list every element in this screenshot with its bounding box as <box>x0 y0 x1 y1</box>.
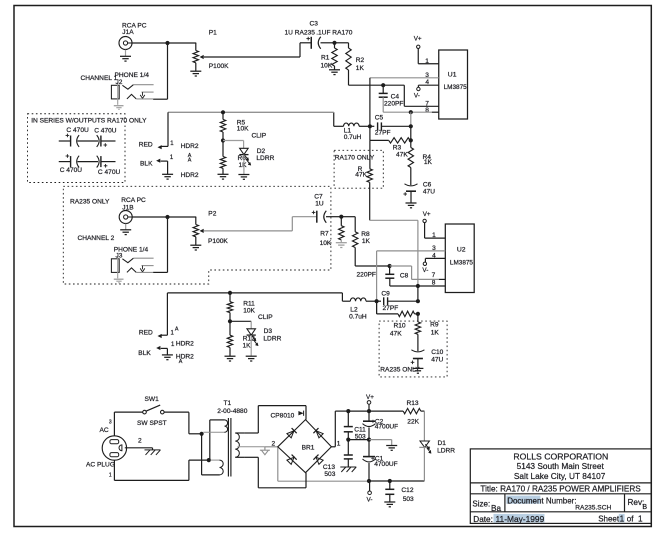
svg-text:BLK: BLK <box>140 161 153 168</box>
phone jack J2 <box>111 85 119 99</box>
svg-text:CP8010: CP8010 <box>271 413 295 420</box>
svg-text:AC PLUG: AC PLUG <box>86 461 115 468</box>
resistor R8 <box>353 232 358 248</box>
svg-text:RA235 ONLY: RA235 ONLY <box>380 367 420 374</box>
wire plug bottom to T1 <box>113 460 115 480</box>
svg-text:7: 7 <box>432 272 436 279</box>
wire node A down to J2 <box>167 43 169 99</box>
svg-text:P2: P2 <box>208 210 216 217</box>
chassis ground AC <box>145 449 161 451</box>
phone jack J3 <box>111 259 119 273</box>
svg-text:47U: 47U <box>423 188 435 195</box>
svg-text:1: 1 <box>432 232 436 239</box>
op-amp U1 <box>439 50 468 119</box>
header rail wire ch1 <box>168 111 334 113</box>
capacitor C8 <box>389 266 391 274</box>
svg-text:LM3875: LM3875 <box>450 260 474 267</box>
LED D3 <box>230 320 251 322</box>
svg-text:P100K: P100K <box>208 238 228 245</box>
svg-text:1K: 1K <box>362 238 371 245</box>
ground under R6 <box>222 168 224 174</box>
svg-text:J1A: J1A <box>122 29 134 36</box>
T1 center tap ground <box>261 450 268 455</box>
ground under BLK ch2 <box>162 354 173 356</box>
svg-text:AC: AC <box>100 427 109 434</box>
capacitor C9 <box>377 300 381 302</box>
svg-text:D3: D3 <box>264 328 273 335</box>
svg-text:1K: 1K <box>424 159 433 166</box>
output node junction ch2 <box>416 284 420 288</box>
svg-text:5143 South Main Street: 5143 South Main Street <box>517 461 605 471</box>
wire R2 to pin7 path <box>348 70 350 85</box>
BLK terminal ch1 <box>156 159 160 163</box>
svg-text:RED: RED <box>139 141 153 148</box>
ground under R1 <box>334 66 336 70</box>
op-amp U2 <box>445 224 474 293</box>
svg-text:1U: 1U <box>315 200 324 207</box>
svg-text:1U RA235: 1U RA235 <box>285 30 316 37</box>
wire bridge minus to V- rail <box>277 447 279 481</box>
svg-text:CHANNEL 1: CHANNEL 1 <box>81 75 118 82</box>
node A junction <box>165 41 169 45</box>
node E junction <box>339 215 343 219</box>
potentiometer P2 <box>195 217 197 225</box>
svg-text:U1: U1 <box>448 71 457 78</box>
svg-text:27PF: 27PF <box>383 305 399 312</box>
svg-text:1K: 1K <box>356 65 365 72</box>
svg-text:503: 503 <box>403 496 414 503</box>
output node junction <box>409 110 413 114</box>
svg-text:P100K: P100K <box>209 63 229 70</box>
LED D1 <box>420 441 429 447</box>
svg-text:V+: V+ <box>414 36 422 43</box>
wire C4 bottom to output <box>382 97 384 112</box>
svg-text:J3: J3 <box>116 253 123 260</box>
svg-text:1: 1 <box>620 514 625 523</box>
svg-text:1: 1 <box>337 441 341 448</box>
node L1-C5 junctions <box>368 124 372 128</box>
inductor L1 <box>334 125 344 127</box>
svg-text:11-May-1999: 11-May-1999 <box>496 514 545 524</box>
speaker line ch1 <box>410 112 412 126</box>
bridge diode bottom-left <box>287 455 297 465</box>
svg-text:RA170 ONLY: RA170 ONLY <box>335 154 375 161</box>
svg-text:LDRR: LDRR <box>256 155 274 162</box>
P2 wiper arrow <box>200 229 204 233</box>
series cap pair row1 <box>59 140 71 142</box>
wire to U1 pin 7 <box>383 84 404 86</box>
svg-text:LDRR: LDRR <box>263 336 281 343</box>
LED D2 <box>223 140 244 142</box>
svg-text:C10: C10 <box>431 349 443 356</box>
resistor R11 <box>229 293 231 302</box>
RCA jack J1A <box>119 37 132 50</box>
T1 primary winding 1 <box>201 434 203 475</box>
sheet highlight <box>619 514 625 522</box>
wire secondary top to bridge <box>245 432 258 434</box>
node C8-top junction <box>388 264 392 268</box>
node R3-R4 junction <box>409 138 413 142</box>
svg-text:CHANNEL 2: CHANNEL 2 <box>78 235 115 242</box>
node T1 primary B <box>207 458 211 462</box>
ground under P1 <box>195 63 197 71</box>
RED terminal ch2 <box>161 334 167 336</box>
RA235 ONLY dotted box <box>63 186 331 284</box>
wire node B to R2 <box>335 42 349 44</box>
wire C7 to node E <box>326 216 341 218</box>
svg-text:RCA PC: RCA PC <box>121 197 146 204</box>
svg-text:22K: 22K <box>407 418 419 425</box>
svg-text:R13: R13 <box>407 400 419 407</box>
svg-text:47K: 47K <box>390 331 402 338</box>
resistor R9 <box>417 314 419 322</box>
svg-text:P1: P1 <box>209 30 217 37</box>
wire L2 to header rail ch2 <box>341 293 343 301</box>
capacitor C6 <box>410 168 412 186</box>
svg-text:3: 3 <box>425 72 429 79</box>
bridge diode top-left <box>287 428 297 438</box>
svg-text:C12: C12 <box>401 487 413 494</box>
svg-text:.1UF RA170: .1UF RA170 <box>316 30 353 37</box>
svg-text:0.7uH: 0.7uH <box>344 134 362 141</box>
svg-text:B: B <box>642 504 647 511</box>
pin 3 gray wire <box>370 77 439 79</box>
BLK terminal ch2 <box>156 346 160 350</box>
RED terminal ch1 <box>161 145 168 147</box>
pin 3 gray wire U2 <box>377 250 446 252</box>
svg-text:V-: V- <box>367 496 373 503</box>
wire R47K to ch2 output <box>369 182 371 220</box>
svg-text:C7: C7 <box>314 193 323 200</box>
node D junction <box>165 215 169 219</box>
svg-text:C8: C8 <box>400 272 409 279</box>
T1 secondary winding <box>235 433 239 457</box>
capacitor C3 <box>310 37 312 49</box>
svg-text:R10: R10 <box>394 323 406 330</box>
mid rail and earth ground <box>348 439 369 441</box>
svg-text:Date:: Date: <box>473 515 493 524</box>
V+ terminal PSU <box>367 401 371 405</box>
svg-text:A: A <box>175 327 179 333</box>
svg-text:2: 2 <box>138 437 142 444</box>
wire C8 bottom to output ch2 <box>389 278 391 286</box>
CP8010 diode mark <box>298 411 303 416</box>
svg-text:C9: C9 <box>381 290 390 297</box>
svg-text:C 470U: C 470U <box>98 169 121 176</box>
feedback vertical ch1 <box>369 78 371 141</box>
series cap pair row2 <box>59 161 71 163</box>
svg-text:1K: 1K <box>239 162 248 169</box>
svg-text:4700UF: 4700UF <box>374 461 397 468</box>
wire plug pin2 to chassis <box>125 447 153 449</box>
svg-text:V+: V+ <box>366 394 374 401</box>
svg-text:V+: V+ <box>423 211 431 218</box>
svg-text:Ba: Ba <box>491 504 501 513</box>
resistor R10 <box>376 301 378 314</box>
capacitor C5 <box>370 125 374 127</box>
wire R13 to D1 <box>421 410 425 412</box>
P1 wiper arrow <box>200 55 204 59</box>
V+ rail <box>348 410 403 412</box>
svg-text:1K: 1K <box>431 330 440 337</box>
capacitor C4 <box>382 85 384 93</box>
svg-text:Document Number:: Document Number: <box>507 496 576 505</box>
ground under R7 <box>340 240 342 243</box>
svg-text:of: of <box>627 514 634 523</box>
svg-text:IN SERIES W/OUTPUTS RA170 ONLY: IN SERIES W/OUTPUTS RA170 ONLY <box>31 117 147 124</box>
wire J1A to node <box>132 42 168 44</box>
svg-text:1: 1 <box>638 514 643 523</box>
svg-text:2-00-4880: 2-00-4880 <box>217 408 247 415</box>
svg-text:10K: 10K <box>321 63 333 70</box>
wire plug top to SW1 <box>113 412 115 436</box>
wire to U2 pin 7 <box>390 265 412 267</box>
wire SW1 to T1 <box>164 411 189 413</box>
capacitor C1 <box>368 440 370 457</box>
svg-text:47K: 47K <box>355 171 367 178</box>
svg-text:D2: D2 <box>257 148 266 155</box>
svg-text:C3: C3 <box>310 21 319 28</box>
svg-text:C 470U: C 470U <box>66 127 89 134</box>
svg-text:47K: 47K <box>396 151 408 158</box>
ground under D3 <box>250 335 252 356</box>
bridge diode top-right <box>313 428 323 438</box>
capacitor C12 <box>389 481 391 489</box>
svg-text:V-: V- <box>414 93 420 100</box>
node L2-C9 junctions <box>375 299 379 303</box>
resistor R7 <box>340 217 342 226</box>
svg-text:1: 1 <box>109 473 112 479</box>
RA170 ONLY dotted box <box>334 150 383 188</box>
capacitor C10 <box>417 334 419 351</box>
svg-text:HDR2: HDR2 <box>176 341 194 348</box>
svg-text:HDR2: HDR2 <box>181 172 199 179</box>
svg-text:3: 3 <box>109 419 112 425</box>
RCA jack J1B <box>119 211 132 224</box>
svg-text:LM3875: LM3875 <box>444 84 468 91</box>
ground under R12 <box>229 348 231 357</box>
svg-text:RA235 ONLY: RA235 ONLY <box>70 199 110 206</box>
svg-text:J2: J2 <box>116 79 123 86</box>
V- rail <box>369 480 424 482</box>
date highlight <box>494 514 545 523</box>
node R11 top junction <box>228 291 232 295</box>
bridge diode bottom-right <box>313 455 323 465</box>
wire node D to P2 <box>168 216 197 218</box>
speaker line ch2 <box>417 286 419 301</box>
resistor R1 <box>334 43 336 48</box>
svg-text:3: 3 <box>432 245 436 252</box>
chassis ground C13 <box>347 459 349 467</box>
node C11-C13 junction <box>346 438 350 442</box>
svg-text:27PF: 27PF <box>375 129 391 136</box>
svg-text:J1B: J1B <box>122 205 134 212</box>
capacitor C11 <box>347 411 349 426</box>
wire wiper up to C3 <box>299 43 301 57</box>
wire node A to P1 <box>168 42 197 44</box>
ground under C12 <box>389 494 391 502</box>
svg-text:R2: R2 <box>356 57 365 64</box>
svg-text:1K: 1K <box>243 342 252 349</box>
svg-text:ROLLS CORPORATION: ROLLS CORPORATION <box>513 451 608 461</box>
svg-text:T1: T1 <box>224 400 232 407</box>
svg-text:1: 1 <box>425 58 429 65</box>
svg-text:10K: 10K <box>237 126 249 133</box>
svg-text:Sheet: Sheet <box>598 514 620 523</box>
svg-text:SW SPST: SW SPST <box>137 420 167 427</box>
svg-text:BR1: BR1 <box>302 444 315 451</box>
svg-text:R8: R8 <box>361 231 370 238</box>
resistor R6 <box>222 141 224 157</box>
V+ terminal ch2 <box>423 219 426 222</box>
ground under J1A <box>125 50 127 57</box>
wire header vertical ch2 <box>166 293 168 335</box>
ground under C6 <box>410 191 412 203</box>
node T1 primary A <box>200 432 204 436</box>
node R10-R9 junction <box>416 312 420 316</box>
ground under C10 <box>417 359 419 369</box>
wire node D down to J3 <box>167 217 169 272</box>
svg-text:10K: 10K <box>320 240 332 247</box>
document number highlight <box>506 496 540 504</box>
svg-text:U2: U2 <box>457 246 466 253</box>
svg-text:C11: C11 <box>354 426 366 433</box>
svg-text:PHONE 1/4: PHONE 1/4 <box>115 72 150 79</box>
wire D1 to V- rail <box>423 447 425 481</box>
node B junction <box>332 41 336 45</box>
resistor R2 <box>348 43 350 48</box>
svg-text:C13: C13 <box>323 464 335 471</box>
wire node E to R8 <box>341 216 355 218</box>
T1 primary winding 2 <box>220 460 224 475</box>
node C4-top junction <box>381 83 385 87</box>
svg-text:0.7uH: 0.7uH <box>349 313 367 320</box>
svg-text:CLIP: CLIP <box>252 133 267 140</box>
svg-text:R7: R7 <box>320 230 329 237</box>
svg-text:V-: V- <box>422 267 428 274</box>
svg-text:220PF: 220PF <box>384 100 403 107</box>
svg-text:Title: RA170 / RA235 POWER AMP: Title: RA170 / RA235 POWER AMPLIFIERS <box>480 485 641 494</box>
potentiometer P1 <box>195 43 197 51</box>
capacitor C2 <box>368 411 370 421</box>
V+ terminal ch1 <box>417 45 420 48</box>
resistor R13 <box>403 408 421 413</box>
V- terminal PSU <box>369 481 371 491</box>
wire bridge plus rail <box>331 446 335 448</box>
svg-text:R1: R1 <box>321 55 330 62</box>
ground under P2 <box>195 237 197 245</box>
svg-text:4700UF: 4700UF <box>375 424 398 431</box>
svg-text:47U: 47U <box>431 356 443 363</box>
title block frame <box>470 449 651 524</box>
feedback vertical ch2 <box>376 251 378 314</box>
svg-text:CLIP: CLIP <box>258 314 273 321</box>
ground under J1B <box>125 224 127 230</box>
node R5 top junction <box>221 110 225 114</box>
wire L1 to header rail <box>333 112 335 126</box>
svg-text:RED: RED <box>139 329 153 336</box>
svg-text:D1: D1 <box>438 440 447 447</box>
svg-text:220PF: 220PF <box>357 271 376 278</box>
svg-text:A: A <box>179 359 183 365</box>
svg-text:C5: C5 <box>375 114 384 121</box>
RA235 ONLY bottom dotted box <box>379 321 447 377</box>
svg-text:Salt Lake City, UT 84107: Salt Lake City, UT 84107 <box>514 471 606 481</box>
svg-text:RA235.SCH: RA235.SCH <box>575 504 611 511</box>
IN SERIES dotted box <box>28 114 126 183</box>
svg-text:BLK: BLK <box>138 350 151 357</box>
bridge rectifier BR1 <box>278 420 332 473</box>
svg-text:C 470U: C 470U <box>60 167 83 174</box>
svg-text:LDRR: LDRR <box>437 447 455 454</box>
svg-text:R9: R9 <box>430 322 439 329</box>
resistor R 47K RA170 <box>367 169 372 183</box>
resistor R4 <box>410 140 412 147</box>
svg-text:A: A <box>188 158 192 164</box>
inductor L2 <box>342 300 350 302</box>
wire header vertical ch1 <box>167 112 169 146</box>
wire wiper up to C7 <box>291 217 293 231</box>
ground under D2 <box>243 155 245 175</box>
wire C3 to node B <box>321 42 335 44</box>
svg-text:C 470U: C 470U <box>94 128 117 135</box>
svg-text:SW1: SW1 <box>145 396 160 403</box>
wire center tap to bridge <box>265 446 278 448</box>
resistor R3 <box>410 126 412 140</box>
capacitor C7 <box>316 211 318 223</box>
wire R8 to pin7 path ch2 <box>354 248 356 267</box>
svg-text:503: 503 <box>324 471 335 478</box>
node R11-R12 junction <box>228 319 232 323</box>
AC plug <box>102 436 126 460</box>
wire R47K lead <box>369 140 371 168</box>
resistor R12 <box>229 321 231 335</box>
wire V+ to pin 1 <box>417 49 419 64</box>
wire J1B to node <box>132 216 167 218</box>
wire V+ to pin 1 U2 <box>424 223 426 239</box>
ground under BLK ch1 <box>162 173 173 175</box>
wire secondary bottom to bridge <box>245 456 258 458</box>
svg-text:10K: 10K <box>243 307 255 314</box>
svg-text:Size:: Size: <box>472 499 490 508</box>
svg-text:HDR2: HDR2 <box>181 143 199 150</box>
resistor R5 <box>220 119 225 132</box>
node R5-R6 junction <box>221 138 225 142</box>
capacitor C13 <box>347 440 349 455</box>
